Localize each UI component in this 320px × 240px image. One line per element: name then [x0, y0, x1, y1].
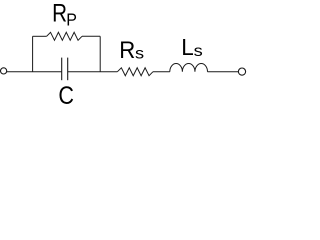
inductor Ls — [170, 63, 208, 71]
wire inductor to right terminal — [208, 71, 239, 73]
capacitor C — [62, 58, 68, 81]
svg-text:R: R — [119, 37, 135, 64]
wire parallel-loop top left — [33, 35, 47, 37]
svg-text:P: P — [66, 9, 77, 29]
svg-text:s: s — [194, 43, 203, 60]
resistor RP — [47, 32, 82, 40]
resistor Rs — [117, 68, 153, 76]
wire parallel-loop right vertical — [99, 36, 101, 71]
svg-text:L: L — [181, 34, 194, 60]
svg-text:C: C — [58, 83, 74, 107]
terminal left — [1, 68, 7, 74]
label Rs — [119, 37, 144, 64]
label RP — [52, 0, 77, 29]
terminal right — [238, 68, 245, 75]
wire capacitor to resistor Rs — [68, 71, 118, 73]
wire parallel-loop top right — [82, 35, 100, 37]
wire left terminal to capacitor — [7, 71, 62, 73]
svg-text:s: s — [135, 45, 144, 62]
svg-text:R: R — [52, 0, 67, 27]
wire resistor Rs to inductor Ls — [153, 71, 170, 73]
label Ls — [181, 34, 203, 60]
wire parallel-loop left vertical — [32, 36, 34, 71]
